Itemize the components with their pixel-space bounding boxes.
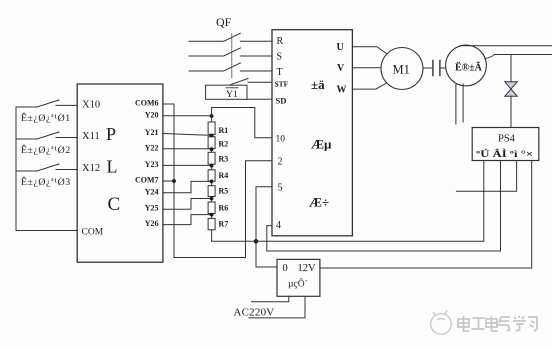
svg-text:R5: R5 <box>219 187 229 196</box>
svg-text:Æµ: Æµ <box>311 137 332 152</box>
contact STF blade <box>230 79 272 85</box>
wire COM7 <box>163 180 174 182</box>
pump outlet pipe stubs <box>456 84 463 124</box>
valve stem upper <box>510 55 512 82</box>
svg-text:Y22: Y22 <box>145 143 159 152</box>
watermark char xue <box>513 316 526 331</box>
svg-text:R7: R7 <box>219 220 229 229</box>
pipe elbow <box>485 55 494 59</box>
power supply box 0-12V <box>277 259 320 296</box>
junction dots <box>172 114 258 243</box>
resistor R1 <box>208 122 215 134</box>
AC input wire 1 <box>252 296 289 302</box>
watermark char dian <box>458 316 470 331</box>
svg-text:R6: R6 <box>219 203 229 212</box>
svg-text:M1: M1 <box>393 63 410 77</box>
pressure switch PS4 box <box>472 128 539 161</box>
breaker QF linkage <box>231 34 233 79</box>
svg-text:Ê±¿Ø¿ª¹Ø3: Ê±¿Ø¿ª¹Ø3 <box>21 176 71 188</box>
svg-text:U: U <box>337 42 344 53</box>
svg-text:R1: R1 <box>219 126 229 135</box>
wire W to motor <box>352 83 386 89</box>
wire Y20 <box>163 115 212 117</box>
wire inverter pin 5 down to main node <box>256 187 272 242</box>
svg-text:S: S <box>277 52 283 63</box>
wire node to 12V supply 0 terminal <box>256 241 277 267</box>
svg-text:0: 0 <box>283 263 288 274</box>
svg-text:C: C <box>108 194 121 215</box>
svg-text:AC220V: AC220V <box>234 307 275 319</box>
PS4 lead 3 stub <box>456 161 516 192</box>
svg-text:STF: STF <box>275 80 289 89</box>
svg-text:Y24: Y24 <box>145 187 159 196</box>
watermark char qi <box>498 317 510 331</box>
wire resistor top to inverter pin 10 <box>212 108 272 138</box>
svg-text:Y1: Y1 <box>226 90 238 100</box>
wire Y26 <box>163 215 212 225</box>
switch S3 (time switch 3 contact) <box>16 164 77 171</box>
svg-text:Y21: Y21 <box>145 128 159 137</box>
watermark char dian2 <box>486 316 498 331</box>
wire U to motor <box>352 47 386 54</box>
svg-text:Y25: Y25 <box>145 204 159 213</box>
svg-text:QF: QF <box>216 15 232 29</box>
main bottom wire to PS4 lead 1 <box>212 161 484 242</box>
breaker QF pole T <box>189 63 272 71</box>
resistor R2 <box>208 137 215 149</box>
watermark char gong <box>472 318 485 329</box>
resistor R6 <box>208 202 215 214</box>
svg-text:SD: SD <box>276 96 287 106</box>
svg-text:V: V <box>337 63 345 74</box>
valve V1 <box>505 82 517 89</box>
svg-text:P: P <box>106 124 116 144</box>
svg-text:R2: R2 <box>219 139 229 148</box>
svg-text:2: 2 <box>278 157 283 168</box>
valve stem lower <box>510 96 512 127</box>
node Y21 tap <box>210 134 214 138</box>
switch S1 (time switch 1 contact) <box>16 100 77 107</box>
svg-text:R3: R3 <box>219 155 229 164</box>
svg-text:Y26: Y26 <box>145 219 159 228</box>
node Y24 tap <box>210 180 214 184</box>
pipe line top <box>460 45 552 47</box>
wire Y23 <box>163 164 212 166</box>
resistor R4 <box>208 170 215 181</box>
svg-text:R4: R4 <box>219 171 229 180</box>
svg-text:10: 10 <box>276 135 286 145</box>
svg-text:W: W <box>337 85 347 96</box>
resistor R7 <box>208 218 215 229</box>
wire COM6 to bus node <box>163 104 174 258</box>
svg-text:Æ÷: Æ÷ <box>309 195 329 210</box>
svg-text:T: T <box>277 67 283 78</box>
pump P1 <box>446 45 487 86</box>
node Y20 tap <box>210 114 214 118</box>
node main junction <box>254 239 258 243</box>
svg-text:R: R <box>277 36 284 47</box>
wire V to motor <box>352 67 381 69</box>
svg-text:5: 5 <box>278 183 283 194</box>
inverter box U1 <box>272 30 352 236</box>
svg-text:4: 4 <box>276 220 281 231</box>
svg-text:Y20: Y20 <box>145 110 159 119</box>
svg-text:X12: X12 <box>82 163 100 174</box>
svg-text:Ë®±Ã: Ë®±Ã <box>455 61 483 74</box>
watermark char xi <box>528 317 537 331</box>
svg-text:±ä: ±ä <box>311 77 325 92</box>
breaker QF pole R <box>189 33 272 41</box>
wire Y24 <box>163 181 212 192</box>
motor M1 <box>381 48 423 90</box>
breaker QF pole S <box>189 48 272 56</box>
svg-text:ºÚ ÂÌ ºì °×: ºÚ ÂÌ ºì °× <box>476 149 533 159</box>
svg-text:X11: X11 <box>82 131 100 142</box>
svg-text:Y23: Y23 <box>145 160 159 169</box>
shaft wire <box>423 67 432 69</box>
svg-text:12V: 12V <box>298 263 317 274</box>
svg-text:Ê±¿Ø¿ª¹Ø1: Ê±¿Ø¿ª¹Ø1 <box>21 112 71 124</box>
svg-text:COM6: COM6 <box>135 99 159 108</box>
node Y22 tap <box>210 147 214 151</box>
wire Y21 <box>163 134 212 136</box>
coupling <box>433 61 440 76</box>
resistor R5 <box>208 186 215 197</box>
resistor chain vertical links <box>211 108 213 242</box>
node Y25 tap <box>210 197 214 201</box>
left supply bus <box>16 107 77 231</box>
svg-text:Ê±¿Ø¿ª¹Ø2: Ê±¿Ø¿ª¹Ø2 <box>21 144 71 156</box>
wire SD <box>247 98 272 100</box>
node Y23 tap <box>210 164 214 168</box>
Y1 overline <box>226 87 238 89</box>
resistor R3 <box>208 152 215 164</box>
svg-text:COM: COM <box>82 228 104 238</box>
svg-text:µçÔ´: µçÔ´ <box>288 278 308 290</box>
pipe line 2 <box>494 54 552 56</box>
wire inverter pin 4 to PS4 lead 2 <box>267 161 501 252</box>
wire Y25 <box>163 199 212 210</box>
node COM7 <box>172 179 176 183</box>
node Y26 tap <box>210 213 214 217</box>
switch S2 (time switch 2 contact) <box>16 132 77 139</box>
svg-text:L: L <box>107 157 118 177</box>
svg-text:PS4: PS4 <box>498 134 516 145</box>
watermark <box>431 310 452 334</box>
relay contact Y1 box <box>206 85 247 99</box>
wire 12V terminal to PS4 lead 4 <box>320 161 532 269</box>
svg-text:X10: X10 <box>82 100 100 111</box>
PLC box <box>77 84 163 262</box>
wire bus to inverter pin 2 <box>174 161 272 258</box>
svg-text:COM7: COM7 <box>135 176 159 185</box>
wire Y22 <box>163 148 212 150</box>
AC input wire 2 <box>249 296 305 318</box>
